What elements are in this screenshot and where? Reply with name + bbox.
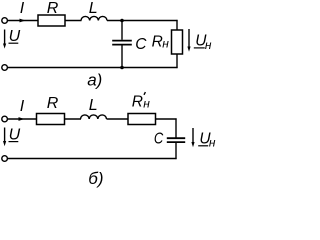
svg-text:L: L	[89, 0, 98, 17]
svg-text:U: U	[9, 126, 21, 143]
wire (C bottom lead, circuit a)	[121, 45, 123, 67]
svg-text:R: R	[152, 33, 163, 50]
svg-text:б): б)	[88, 169, 103, 188]
terminal (top-left input, circuit b)	[2, 116, 8, 122]
wire (input top, circuit a)	[8, 20, 38, 22]
voltage arrow U input (circuit a)	[4, 30, 6, 45]
svg-text:R: R	[47, 0, 59, 17]
svg-text:I: I	[20, 0, 25, 17]
wire (L to RН corner, circuit a)	[107, 20, 178, 22]
voltage arrow UН output (circuit a)	[188, 29, 190, 48]
terminal (top-left input, circuit a)	[2, 18, 8, 24]
capacitor C (circuit b)	[167, 137, 185, 139]
wire (R to L, circuit a)	[65, 20, 82, 22]
resistor R (circuit a)	[38, 15, 65, 26]
resistor R (circuit b)	[37, 114, 65, 125]
wire (RН to bottom, circuit a)	[176, 54, 178, 68]
wire (L to R'Н, circuit b)	[107, 118, 129, 120]
wire (R'Н to corner and down to C, circuit b)	[156, 118, 177, 120]
voltage arrow U input (circuit b)	[4, 128, 6, 143]
svg-text:н: н	[209, 136, 216, 150]
svg-text:C: C	[154, 130, 164, 147]
svg-text:U: U	[9, 28, 21, 45]
wire (C bottom lead to corner, circuit b)	[175, 143, 177, 159]
wire (input top, circuit b)	[8, 118, 37, 120]
svg-text:I: I	[20, 98, 25, 115]
inductor L (circuit b)	[81, 115, 107, 119]
svg-text:н: н	[205, 38, 212, 52]
wire (bottom, circuit a)	[8, 67, 178, 69]
wire (C top lead, circuit a)	[121, 21, 123, 40]
resistor R'Н (circuit b)	[128, 114, 156, 125]
terminal (bottom-left input, circuit b)	[2, 156, 8, 162]
voltage arrow UН output (circuit b)	[192, 128, 194, 143]
current arrow I (circuit b)	[19, 117, 25, 121]
terminal (bottom-left input, circuit a)	[2, 65, 8, 71]
svg-text:R: R	[47, 95, 59, 112]
current arrow I (circuit a)	[20, 19, 26, 23]
svg-text:н: н	[162, 37, 169, 51]
svg-text:C: C	[135, 36, 147, 53]
svg-text:а): а)	[87, 71, 102, 90]
wire (bottom, circuit b)	[8, 158, 177, 160]
wire (R to L, circuit b)	[65, 118, 82, 120]
svg-text:н: н	[143, 97, 150, 111]
junction (bottom of C branch, circuit a)	[120, 66, 124, 70]
svg-text:L: L	[89, 97, 98, 114]
svg-text:R: R	[132, 93, 143, 110]
inductor L (circuit a)	[81, 16, 107, 20]
wire (top right drop into RН, circuit a)	[176, 20, 178, 30]
junction (top of C branch, circuit a)	[120, 19, 124, 23]
resistor RН load (circuit a)	[172, 30, 183, 54]
capacitor C (circuit a)	[112, 40, 132, 42]
